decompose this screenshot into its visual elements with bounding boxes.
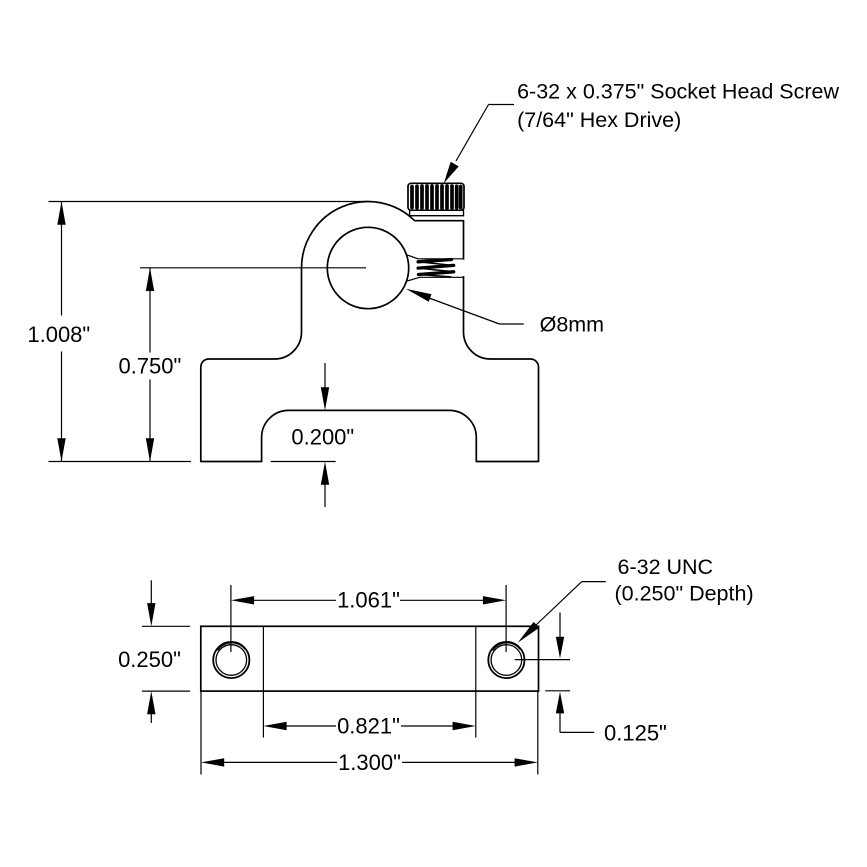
svg-text:1.061": 1.061" — [337, 588, 400, 613]
extension line bottom left — [49, 461, 192, 463]
dimension 0.125" lower arrow (up) — [556, 692, 564, 714]
plate outline (bottom view) — [201, 626, 539, 691]
dimension 0.750" line — [149, 268, 151, 353]
dimension 0.200" lower arrow (up) — [321, 462, 329, 485]
clamp body outline (side view) — [201, 202, 539, 462]
leader 6-32 UNC arrow — [518, 622, 540, 643]
screw head rim — [410, 210, 464, 215]
dimension 0.750" arrow up — [146, 268, 154, 291]
bore circle Ø8mm — [327, 227, 408, 308]
right threaded hole — [488, 642, 524, 678]
dimension 0.821" line — [285, 725, 336, 727]
svg-text:(7/64" Hex Drive): (7/64" Hex Drive) — [517, 108, 681, 132]
screw threads in slit — [418, 260, 454, 277]
svg-text:6-32 x 0.375" Socket Head Scre: 6-32 x 0.375" Socket Head Screw — [517, 80, 839, 104]
dimension 1.061" extension lines — [230, 585, 232, 652]
dimension 1.061" line — [253, 599, 336, 601]
extension line top (y of clamp top) — [49, 201, 369, 203]
notch edge right (bottom view) — [475, 626, 477, 691]
svg-text:0.821": 0.821" — [337, 714, 400, 739]
dimension 0.250" arrows — [150, 580, 152, 603]
svg-text:0.750": 0.750" — [118, 354, 181, 379]
dimension 0.750" arrow down — [146, 438, 154, 461]
dimension 0.200" upper arrow (down) — [324, 363, 326, 388]
leader Ø8mm arrow — [406, 289, 432, 302]
dimension 1.300" arrows — [201, 758, 224, 766]
dimension 1.008" line — [61, 202, 63, 316]
svg-text:1.300": 1.300" — [338, 750, 401, 775]
screw head (knurled) — [408, 183, 464, 210]
dimension 1.008" arrow up — [57, 202, 65, 225]
dimension 1.061" arrows — [231, 596, 254, 604]
svg-text:0.125": 0.125" — [604, 720, 667, 745]
dimension 0.250" extension lines — [142, 625, 190, 627]
slit gap erase — [410, 260, 466, 276]
notch edge left (bottom view) — [262, 626, 264, 691]
svg-text:Ø8mm: Ø8mm — [540, 313, 605, 337]
svg-text:0.200": 0.200" — [291, 424, 354, 449]
lower jaw top edge — [407, 277, 463, 281]
svg-text:6-32 UNC: 6-32 UNC — [618, 555, 714, 579]
dimension 1.300" extension lines — [200, 691, 202, 774]
upper jaw bottom edge — [407, 255, 463, 259]
dimension 1.300" line — [223, 761, 337, 763]
dimension 0.821" arrows — [263, 722, 286, 730]
dimension 0.125" upper arrow (down) — [559, 613, 561, 638]
dimension 0.200" landing line — [271, 461, 336, 463]
left threaded hole — [213, 642, 249, 678]
svg-text:(0.250" Depth): (0.250" Depth) — [615, 582, 754, 606]
dimension 0.125" extension lines — [515, 659, 570, 661]
extension line bore centerline — [140, 267, 366, 269]
dimension 0.821" extension lines — [262, 691, 264, 737]
dimension 1.008" arrow down — [57, 438, 65, 461]
svg-text:0.250": 0.250" — [118, 647, 181, 672]
svg-text:1.008": 1.008" — [27, 322, 90, 347]
leader screw label arrow — [444, 162, 459, 183]
